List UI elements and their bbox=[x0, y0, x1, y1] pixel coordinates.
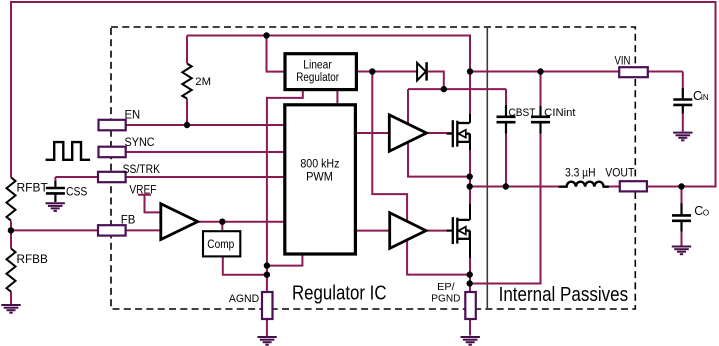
svg-text:PGND: PGND bbox=[431, 293, 460, 305]
svg-text:Linear: Linear bbox=[303, 59, 332, 71]
svg-text:FB: FB bbox=[121, 215, 136, 227]
svg-text:RFBB: RFBB bbox=[17, 254, 49, 266]
svg-text:3.3 µH: 3.3 µH bbox=[565, 167, 596, 179]
svg-text:CBST: CBST bbox=[509, 107, 536, 119]
svg-text:2M: 2M bbox=[195, 76, 211, 88]
svg-text:AGND: AGND bbox=[229, 293, 259, 305]
svg-text:EN: EN bbox=[125, 110, 141, 122]
svg-text:Internal Passives: Internal Passives bbox=[499, 284, 628, 306]
svg-text:Comp: Comp bbox=[207, 239, 234, 251]
svg-text:CINint: CINint bbox=[544, 107, 575, 119]
svg-text:SYNC: SYNC bbox=[125, 137, 155, 149]
svg-text:VIN: VIN bbox=[615, 55, 631, 67]
svg-text:VREF: VREF bbox=[129, 185, 156, 197]
svg-text:O: O bbox=[703, 208, 709, 217]
svg-text:IN: IN bbox=[701, 93, 709, 102]
svg-text:EP/: EP/ bbox=[437, 281, 454, 293]
svg-text:RFBT: RFBT bbox=[17, 182, 48, 194]
svg-text:SS/TRK: SS/TRK bbox=[123, 164, 161, 176]
svg-text:PWM: PWM bbox=[306, 171, 333, 183]
svg-text:CSS: CSS bbox=[66, 186, 88, 198]
svg-text:VOUT: VOUT bbox=[605, 168, 634, 180]
svg-text:Regulator IC: Regulator IC bbox=[292, 283, 387, 305]
svg-text:C: C bbox=[694, 204, 703, 218]
svg-text:800 kHz: 800 kHz bbox=[300, 158, 339, 170]
svg-text:Regulator: Regulator bbox=[296, 72, 339, 84]
